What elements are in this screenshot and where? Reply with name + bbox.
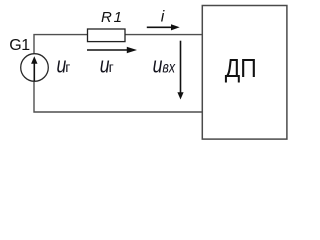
svg-text:вх: вх [162, 58, 176, 76]
svg-text:G1: G1 [9, 37, 30, 54]
svg-text:ДП: ДП [225, 55, 257, 84]
svg-text:г: г [109, 59, 114, 75]
svg-text:i: i [161, 9, 165, 26]
svg-text:u: u [153, 54, 163, 78]
svg-text:г: г [65, 59, 70, 75]
svg-text:R1: R1 [101, 9, 124, 26]
